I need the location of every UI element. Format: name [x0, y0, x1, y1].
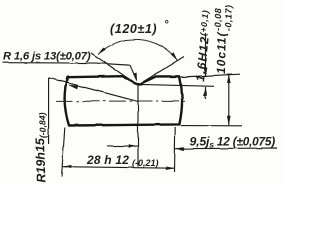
extension line from groove bottom	[140, 84, 214, 86]
svg-text:-0,08: -0,08	[213, 8, 223, 31]
leader arrowhead at apex	[133, 73, 137, 82]
dimension line 9,5 left segment	[107, 145, 138, 147]
R19 radius line	[49, 78, 138, 102]
120 degree dimension arc	[98, 39, 178, 60]
part outline (cylindrical pin with V-groove)	[65, 76, 182, 125]
10c11 bottom arrowhead	[227, 116, 231, 125]
svg-text:-0,17): -0,17)	[223, 4, 233, 31]
svg-text:R19h15(-0,84): R19h15(-0,84)	[32, 112, 49, 183]
svg-text:28 h 12: 28 h 12	[86, 153, 129, 167]
svg-text:10c11(: 10c11(	[214, 30, 229, 74]
extension line from bottom edge (for 10 dim)	[181, 125, 242, 127]
svg-text:9,5js 12 (±0,075): 9,5js 12 (±0,075)	[190, 135, 276, 150]
svg-text:(120±1): (120±1)	[110, 22, 157, 36]
10c11 top arrowhead	[227, 74, 231, 83]
28 left arrowhead	[63, 165, 72, 169]
9,5 left arrowhead	[129, 144, 138, 148]
arc right arrowhead	[171, 52, 178, 60]
dimension line 9,5 right segment	[175, 147, 277, 150]
dimension line 1,6 lower part	[205, 87, 207, 99]
dimension line 28h12	[63, 167, 175, 169]
1,6 lower arrowhead	[204, 87, 208, 96]
label 10 c11 (-0,08 -0,17) rotated	[212, 4, 234, 74]
arc left arrowhead	[98, 47, 106, 55]
left flank extension line	[91, 53, 135, 83]
9,5 right arrowhead	[175, 147, 184, 151]
centerline	[56, 100, 187, 103]
R19 vertical reference line	[48, 78, 50, 144]
extension line right end (28 and 9,5 dims)	[174, 127, 177, 173]
extension line from top edge (for 1,6 and 10 dims)	[181, 74, 240, 77]
groove axis extension line	[137, 84, 139, 167]
svg-text:R 1,6 js 13(±0,07): R 1,6 js 13(±0,07)	[3, 51, 91, 63]
svg-text:(-0,21): (-0,21)	[132, 158, 159, 168]
dimension line 1,6 upper part	[205, 33, 207, 77]
extension line left end (28 dim)	[62, 128, 65, 178]
right flank extension line	[142, 57, 184, 83]
svg-text:1,6H12(+0,1): 1,6H12(+0,1)	[193, 9, 214, 82]
svg-text:°: °	[164, 19, 169, 31]
1,6 upper arrowhead	[204, 68, 208, 77]
leader line R1,6 (bent) to groove apex	[3, 63, 137, 80]
28 right arrowhead	[166, 166, 175, 170]
dimension line 10c11	[228, 74, 230, 125]
R19 arrowhead	[68, 85, 78, 90]
